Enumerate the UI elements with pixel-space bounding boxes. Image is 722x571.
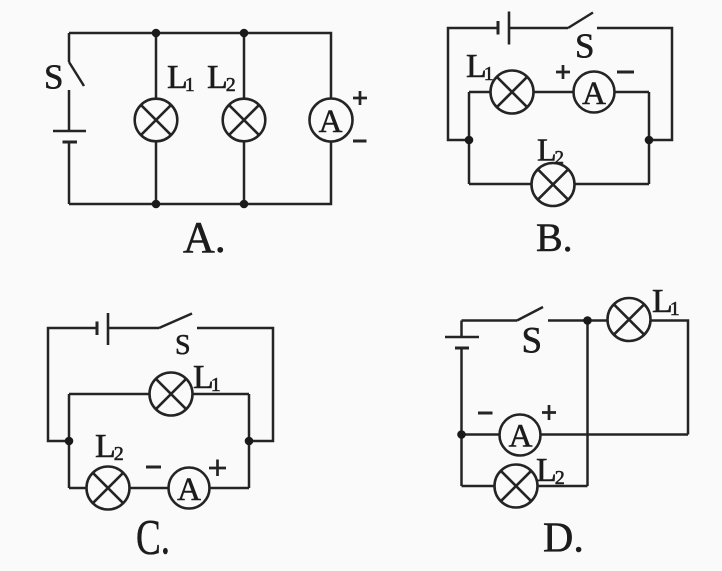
svg-text:D.: D.: [543, 516, 584, 562]
svg-text:A.: A.: [183, 213, 226, 262]
svg-text:L1: L1: [652, 283, 680, 320]
svg-text:L1: L1: [466, 48, 494, 85]
svg-text:A: A: [177, 472, 201, 508]
svg-text:A: A: [319, 104, 343, 140]
svg-text:A: A: [509, 419, 533, 455]
svg-text:L2: L2: [207, 59, 236, 96]
svg-text:L2: L2: [95, 428, 124, 465]
svg-text:L2: L2: [537, 132, 564, 169]
svg-text:L1: L1: [167, 59, 195, 96]
svg-text:S: S: [44, 58, 63, 97]
svg-text:L1: L1: [193, 359, 221, 396]
svg-text:S: S: [175, 330, 191, 361]
svg-text:S: S: [522, 321, 543, 362]
svg-text:B.: B.: [536, 215, 573, 260]
svg-text:L2: L2: [536, 452, 565, 489]
svg-text:C.: C.: [136, 509, 170, 565]
svg-text:S: S: [575, 27, 594, 66]
svg-text:A: A: [582, 76, 606, 112]
